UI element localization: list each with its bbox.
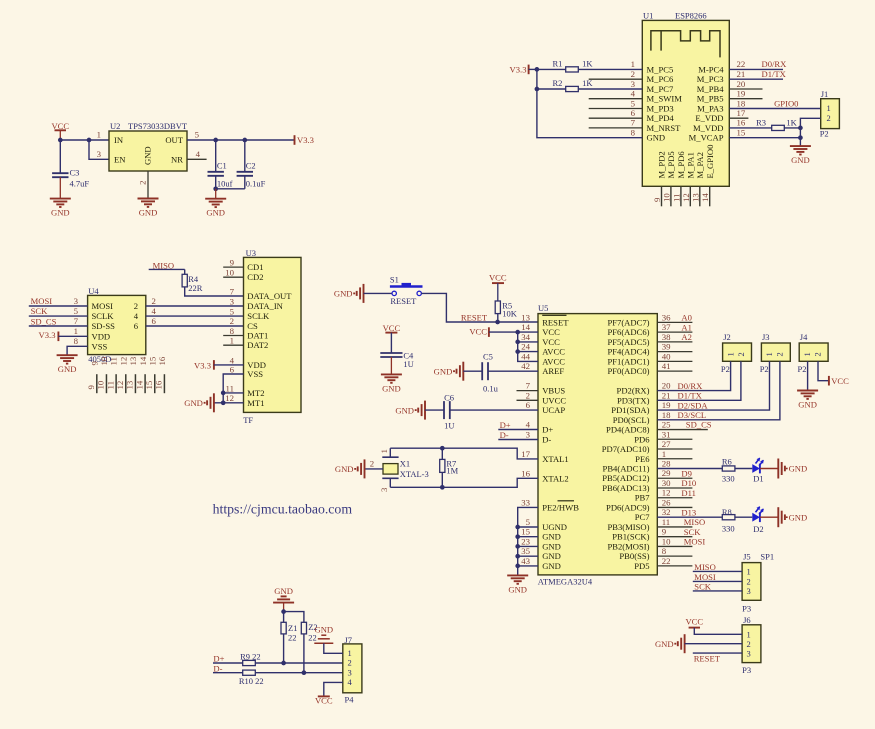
power net VCC (R5 pull-up) [489,273,507,302]
svg-text:EN: EN [114,155,126,165]
svg-text:1: 1 [725,352,735,356]
pin 38 (U5 PF5(ADC5)) [607,332,692,347]
pin 30 (U5 PB6(ADC13)) [602,478,696,493]
svg-text:VCC: VCC [542,337,560,347]
svg-text:16: 16 [521,468,530,478]
pin 31 (U5 PD6) [634,429,692,444]
svg-text:MISO: MISO [694,562,716,572]
svg-text:16: 16 [737,118,746,128]
ground GND (J6 pin 2) [655,634,742,653]
svg-text:3: 3 [74,296,79,306]
power net VCC (top-left power port) [51,121,69,140]
resistor R10 22 [239,670,343,686]
svg-text:1K: 1K [582,59,593,69]
svg-text:44: 44 [521,351,530,361]
svg-text:J1: J1 [821,89,829,99]
svg-text:PC7: PC7 [635,512,651,522]
pin 12 (U1 M_PA1 bottom) [681,152,696,206]
svg-text:10: 10 [96,380,106,389]
svg-text:22: 22 [662,556,671,566]
pin 9 (U1 M_PD2 bottom) [652,151,667,206]
net label D- (USB) [498,430,538,440]
ground GND (U4 VSS) [57,355,78,374]
pin 6 (U1 M_PD4) [589,108,675,123]
svg-text:16: 16 [154,380,164,389]
pin 1 (U5 PE6) [635,449,692,464]
svg-text:15: 15 [148,356,158,365]
svg-text:1M: 1M [446,465,458,475]
svg-text:26: 26 [662,497,671,507]
svg-text:M_NRST: M_NRST [647,123,682,133]
pin 2 (U1 M_PC6) [589,69,674,84]
net label MISO (TF DATA_OUT) [149,261,185,271]
pin 17 (U1 E_VDD) [695,108,748,123]
pin 1 (U2 IN) [97,130,101,140]
svg-text:PF7(ADC7): PF7(ADC7) [607,317,649,327]
svg-text:GND: GND [139,208,158,218]
svg-text:PD1(SDA): PD1(SDA) [611,405,649,415]
svg-text:0.1uF: 0.1uF [246,179,266,189]
pin 21 (U1 M_PC3) [697,69,746,84]
svg-text:GND: GND [334,289,353,299]
wire U5 PC7 to R8 [657,516,722,518]
svg-text:8: 8 [631,128,636,138]
svg-text:D2/SDA: D2/SDA [678,400,709,410]
svg-text:R3: R3 [756,117,766,127]
svg-text:14: 14 [134,380,144,389]
svg-text:43: 43 [521,556,530,566]
svg-text:PF6(ADC6): PF6(ADC6) [607,327,649,337]
svg-text:VCC: VCC [831,376,849,386]
ground GND (U3 MT1) [184,393,214,412]
svg-text:R8: R8 [722,507,732,517]
svg-text:42: 42 [521,361,530,371]
pin 37 (U5 PF6(ADC6)) [607,322,692,337]
svg-text:2: 2 [370,458,374,468]
svg-text:D1/TX: D1/TX [762,69,787,79]
svg-text:V3.3: V3.3 [194,360,211,370]
svg-text:12: 12 [115,381,125,390]
svg-text:VCC: VCC [315,696,333,706]
svg-text:PD5: PD5 [634,561,649,571]
wire J7 pin 4 to VCC [324,682,343,696]
svg-text:DATA_IN: DATA_IN [247,301,283,311]
connector J3 [760,332,791,374]
svg-text:GND: GND [789,512,808,522]
svg-text:M_VDD: M_VDD [693,123,724,133]
pin 2 (U2 GND) [138,171,149,199]
connector J5 SP1 [742,551,774,613]
svg-text:3: 3 [526,430,531,440]
svg-text:AVCC: AVCC [542,347,565,357]
svg-text:1: 1 [662,449,666,459]
svg-text:GND: GND [51,208,70,218]
antenna meander (inside U1) [651,31,720,58]
wire U2 OUT to V3.3 [187,138,295,143]
svg-text:VCC: VCC [469,326,487,336]
svg-text:6: 6 [152,316,157,326]
wire U5 PD3(TX) to J2 pin 2 [657,361,741,400]
ground GND (D2) [778,507,807,527]
power net VCC (U5 supply) [469,326,517,337]
svg-text:4: 4 [196,149,201,159]
svg-text:D1/TX: D1/TX [678,391,703,401]
svg-text:AREF: AREF [542,366,564,376]
svg-text:UCAP: UCAP [542,405,565,415]
svg-text:16: 16 [157,356,167,365]
svg-text:1U: 1U [403,359,413,369]
pin 43 (U5 GND) [521,556,561,571]
svg-text:D2: D2 [753,524,763,534]
svg-text:VSS: VSS [92,341,108,351]
pin 14 (U1 E_GPIO0 bottom) [700,145,715,207]
svg-text:VCC: VCC [542,327,560,337]
connector J7 USB [343,635,362,705]
svg-text:24: 24 [521,342,530,352]
svg-text:XTAL1: XTAL1 [542,454,569,464]
svg-text:J7: J7 [345,635,353,645]
pin 14 (U5 VCC) [521,322,560,337]
svg-text:E_VDD: E_VDD [695,113,723,123]
TF card socket U3 [243,248,301,425]
svg-text:J3: J3 [762,332,770,342]
svg-text:VDD: VDD [92,331,111,341]
net label SD_CS (input) [29,316,88,327]
pin 4 (U2 NR) [196,149,201,159]
svg-text:R1: R1 [553,59,563,69]
svg-text:MOSI: MOSI [31,296,53,306]
svg-text:27: 27 [662,439,671,449]
svg-text:GND: GND [542,541,561,551]
svg-text:11: 11 [109,357,119,365]
svg-text:GND: GND [798,400,817,410]
svg-text:22: 22 [288,633,297,643]
svg-text:GND: GND [508,584,527,594]
svg-text:15: 15 [521,527,530,537]
svg-text:33: 33 [521,497,530,507]
svg-text:V3.3: V3.3 [39,330,56,340]
svg-text:PD7(ADC10): PD7(ADC10) [602,444,650,454]
svg-text:22R: 22R [188,283,203,293]
wire S1 to RESET net [421,293,538,324]
svg-text:XTAL-3: XTAL-3 [400,469,429,479]
pin 32 (U5 PC7) [635,507,697,522]
connector J2 [721,332,752,374]
svg-text:SD_CS: SD_CS [31,316,57,326]
ground GND (J7 pin 1) [314,624,343,653]
svg-text:NR: NR [171,155,183,165]
svg-text:D-: D- [542,435,551,445]
svg-text:3: 3 [631,79,636,89]
svg-text:9: 9 [662,527,667,537]
svg-text:2: 2 [348,658,352,668]
pin 11 (U1 M_PD6 bottom) [671,151,686,207]
svg-text:2: 2 [827,113,831,123]
svg-text:P4: P4 [345,695,355,705]
svg-text:30: 30 [662,478,671,488]
pushbutton S1 RESET [364,274,423,306]
pin 10 (U5 PB2(MOSI)) [607,536,705,551]
svg-text:3: 3 [230,296,235,306]
pin 26 (U5 PD6(ADC9)) [606,497,692,512]
svg-text:CD1: CD1 [247,262,263,272]
pin 25 (U5 PD4(ADC8)) [606,420,712,435]
pin 1 (U3 DAT2) [223,336,243,346]
svg-text:SD_CS: SD_CS [686,420,712,430]
svg-text:SP1: SP1 [760,551,774,561]
svg-text:R9 22: R9 22 [240,652,261,662]
pin 5 (U2 OUT) [195,130,200,140]
capacitor C5 0.1u (AREF) [463,351,538,393]
svg-text:Z1: Z1 [288,623,297,633]
svg-text:M_PB4: M_PB4 [697,84,724,94]
power net VCC (J7) [315,696,333,706]
svg-text:D+: D+ [542,425,553,435]
net label SCK (J5 pin 3) [693,582,742,592]
svg-text:D-: D- [213,663,222,673]
svg-text:PE2/HWB: PE2/HWB [542,502,579,512]
svg-text:D1: D1 [753,473,763,483]
ground GND (U2) [138,199,159,218]
svg-text:6: 6 [631,108,636,118]
svg-text:3: 3 [348,667,352,677]
svg-text:1U: 1U [444,421,454,431]
wire J4 pin 1 to ground [807,361,809,390]
svg-text:1: 1 [827,103,831,113]
svg-text:29: 29 [662,468,671,478]
net label D+ (USB) [498,420,538,430]
svg-text:1: 1 [631,59,635,69]
pin 3 (U1 M_PC7) [631,79,674,94]
pin 44 (U5 AVCC) [521,351,565,366]
wire J4 pin 2 to VCC [818,361,829,380]
pin 5 (U5 UGND) [526,517,567,532]
wire U3 VSS to MT1/MT2 ground [221,374,244,405]
svg-text:M_PA3: M_PA3 [697,104,723,114]
svg-text:SCLK: SCLK [247,311,270,321]
svg-text:GND: GND [382,383,401,393]
svg-text:GND: GND [434,366,453,376]
power net VCC (J6 pin 1) [685,616,742,634]
svg-text:9: 9 [89,361,99,366]
connector J4 [798,332,829,374]
svg-text:V3.3: V3.3 [510,65,527,75]
connector J6 [742,615,761,675]
svg-text:C2: C2 [246,161,256,171]
svg-text:C3: C3 [70,168,80,178]
svg-text:A2: A2 [681,332,692,342]
resistor R9 22 [240,652,343,666]
svg-text:CS: CS [247,321,258,331]
svg-text:2: 2 [736,352,746,356]
svg-text:IN: IN [114,135,124,145]
svg-text:GND: GND [335,464,354,474]
pin 13 (U5 RESET) [521,312,569,327]
U4 bottom pin numbers 9-16 [89,356,167,365]
svg-text:U5: U5 [538,303,548,313]
wire J1 pin 2 to R3 and GND [798,118,821,146]
pin 4 (U3 VDD) [230,355,235,365]
svg-text:M_PC7: M_PC7 [647,84,674,94]
microcontroller U5 ATMEGA32U4 [538,303,658,587]
pin 3 (U5 D-) [526,430,552,445]
pin 19 (U5 PD1(SDA)) [611,400,708,415]
pin 20 (U5 PD2(RX)) [617,381,704,396]
resistor R6 330 [722,456,735,483]
wire XTAL1 rail [390,446,538,459]
svg-text:31: 31 [662,429,671,439]
svg-text:DATA_OUT: DATA_OUT [247,291,292,301]
svg-text:35: 35 [521,546,530,556]
wire EN branch [89,140,109,159]
pin 8 (U5 PB0(SS)) [619,546,692,561]
pin 1 (U1 M_PC5) [631,59,674,74]
svg-text:SD-SS: SD-SS [92,321,116,331]
svg-text:2: 2 [775,352,785,356]
pin 7 (U3 DATA_OUT) [230,286,235,296]
svg-text:VSS: VSS [247,369,263,379]
wire U4 pin4 to U3 SCLK [146,306,244,316]
net label GPIO0 (U1 pin 18 to J1) [729,98,820,108]
svg-text:U2: U2 [110,121,120,131]
pin 42 (U5 AREF) [521,361,564,376]
power net V3.3 (regulator output) [295,135,314,145]
svg-text:GND: GND [542,551,561,561]
wire VCC to U2 IN [58,138,109,143]
svg-text:MT2: MT2 [247,388,264,398]
svg-text:M_PA1: M_PA1 [686,152,696,178]
svg-text:PF0(ADC0): PF0(ADC0) [607,366,649,376]
net label D0/RX (U1 pin 22) [729,59,787,69]
svg-text:D11: D11 [681,488,695,498]
svg-text:VBUS: VBUS [542,386,565,396]
svg-text:MOSI: MOSI [684,537,706,547]
svg-text:RESET: RESET [461,312,488,322]
svg-text:X1: X1 [400,458,410,468]
svg-text:13: 13 [125,380,135,389]
pin 39 (U5 PF4(ADC4)) [607,342,692,357]
svg-text:4.7uF: 4.7uF [70,179,90,189]
svg-text:J5: J5 [743,551,751,561]
pin 3 (U3 DATA_IN) [230,296,235,306]
pin 10 (U1 M_PD5 bottom) [661,151,676,206]
pin 11 (U3 MT2) [226,383,234,393]
ground GND (U5) [507,575,528,594]
svg-text:17: 17 [521,449,530,459]
svg-text:3: 3 [97,149,102,159]
svg-text:PB4(ADC11): PB4(ADC11) [603,464,650,474]
wire ground rail to Z1 Z2 [281,609,304,622]
svg-text:M_PA2: M_PA2 [695,152,705,178]
svg-text:A0: A0 [681,313,692,323]
svg-text:MOSI: MOSI [92,301,114,311]
svg-text:R6: R6 [722,456,732,466]
svg-text:GND: GND [647,133,666,143]
pin 33 (U5 PE2/HWB) [521,497,579,512]
net label D1/TX (U1 pin 21) [729,69,786,79]
svg-text:1: 1 [747,566,751,576]
resistor Z2 22 [301,622,317,673]
svg-text:PB3(MISO): PB3(MISO) [607,522,649,532]
pin 21 (U5 PD3(TX)) [617,390,703,405]
svg-text:J2: J2 [723,332,731,342]
svg-text:SCLK: SCLK [92,311,115,321]
svg-text:PB2(MOSI): PB2(MOSI) [607,541,649,551]
pin 8 (U3 DAT1) [223,326,243,336]
svg-text:14: 14 [138,356,148,365]
svg-text:M_PC3: M_PC3 [697,74,724,84]
svg-text:PD6: PD6 [634,434,650,444]
svg-text:1: 1 [747,629,751,639]
svg-text:20: 20 [662,381,671,391]
pin 8 (U1 GND) [631,128,666,143]
svg-text:GND: GND [791,155,810,165]
pin 15 (U5 GND) [521,527,561,542]
svg-text:38: 38 [662,332,671,342]
svg-text:R2: R2 [553,78,563,88]
svg-text:15: 15 [737,128,746,138]
svg-text:UVCC: UVCC [542,395,566,405]
svg-text:1: 1 [802,352,812,356]
svg-text:10uf: 10uf [217,179,233,189]
svg-text:12: 12 [662,488,671,498]
pin 22 (U1 M-PC4) [698,59,745,74]
svg-text:3: 3 [747,586,751,596]
wire XTAL2 rail [390,478,538,489]
svg-text:D9: D9 [681,468,692,478]
svg-text:D0/RX: D0/RX [678,381,704,391]
svg-text:2: 2 [631,69,635,79]
pin 19 (U1 M_PB5) [697,89,763,104]
resistor R7 1M [440,448,459,487]
svg-text:10: 10 [662,536,671,546]
svg-text:1: 1 [764,352,774,356]
svg-text:1: 1 [348,648,352,658]
svg-text:PD6(ADC9): PD6(ADC9) [606,502,650,512]
svg-text:PD3(TX): PD3(TX) [617,395,650,405]
svg-text:39: 39 [662,342,671,352]
svg-text:GND: GND [58,364,77,374]
svg-text:P2: P2 [798,364,807,374]
crystal X1 XTAL-3 [365,448,429,492]
svg-text:GND: GND [206,208,225,218]
capacitor C3 [52,140,89,199]
svg-text:10K: 10K [502,309,518,319]
pin 6 (U5 UCAP) [526,400,566,415]
svg-text:TF: TF [243,415,253,425]
pin 12 (U5 PB7) [635,488,696,503]
svg-text:D+: D+ [213,654,224,664]
svg-text:22: 22 [737,59,746,69]
ground GND (C5) [434,362,464,381]
pin 2 (U3 CS) [230,316,234,326]
svg-text:5: 5 [526,517,531,527]
ground GND (C3) [50,199,71,218]
pin 34 (U5 VCC) [521,332,560,347]
svg-text:P2: P2 [820,129,829,139]
svg-text:GPIO0: GPIO0 [774,98,798,108]
svg-text:D-: D- [500,430,509,440]
svg-text:12: 12 [681,193,691,202]
svg-text:VCC: VCC [489,273,507,283]
svg-text:MT1: MT1 [247,398,264,408]
svg-text:SCK: SCK [694,582,712,592]
ground GND (D1) [778,459,807,479]
svg-text:2: 2 [152,296,156,306]
svg-text:2: 2 [812,352,822,356]
power net V3.3 (U1 pull-ups) [510,65,540,75]
svg-text:11: 11 [105,381,115,389]
